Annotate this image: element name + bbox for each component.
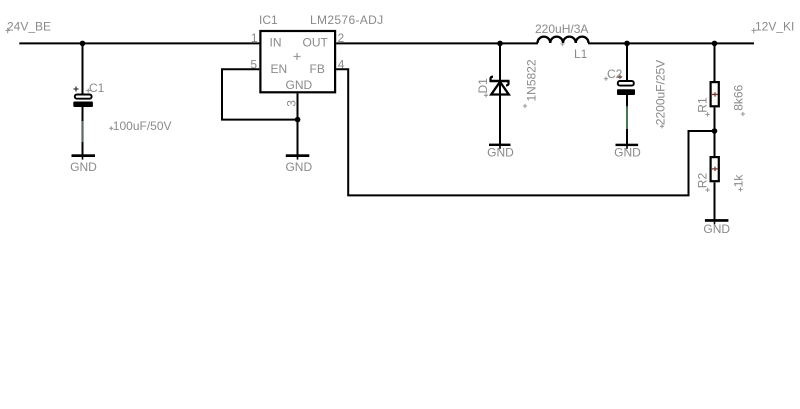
wire node to D1 <box>499 43 501 95</box>
label R2 (rotated) <box>696 173 710 192</box>
ground GND under D1 <box>487 144 514 160</box>
wire C1 to GND <box>82 107 84 155</box>
svg-text:GND: GND <box>703 222 730 236</box>
label LM2576-ADJ <box>310 13 384 27</box>
wire IC1 OUT to L1 <box>336 42 538 44</box>
label R1 (rotated) <box>696 97 710 116</box>
pin 4 number <box>338 57 345 71</box>
pin name EN <box>271 62 288 76</box>
junction C1 node <box>80 41 86 47</box>
label R1 value 8k66 (rotated) <box>731 84 745 116</box>
pin 5 number <box>250 57 257 71</box>
wire node to C1 <box>82 43 84 94</box>
svg-text:GND: GND <box>70 160 97 174</box>
svg-text:IC1: IC1 <box>259 13 278 27</box>
svg-text:12V_KI: 12V_KI <box>755 20 794 34</box>
svg-text:1k: 1k <box>731 174 745 188</box>
svg-text:3: 3 <box>285 100 299 107</box>
svg-text:8k66: 8k66 <box>731 84 745 110</box>
svg-text:100uF/50V: 100uF/50V <box>113 119 172 133</box>
resistor R2 <box>711 157 719 181</box>
pin name OUT <box>303 36 329 50</box>
wire 24V_BE to IC1 pin IN <box>19 42 259 44</box>
wire C2 to GND <box>626 95 628 144</box>
svg-text:GND: GND <box>286 78 313 92</box>
wire R1 to R2 <box>714 107 716 156</box>
label IC1 <box>259 13 278 27</box>
junction EN/GND node <box>295 117 301 123</box>
svg-text:GND: GND <box>487 145 514 159</box>
label C2 value 2200uF/25V (rotated) <box>653 60 667 129</box>
wire node to R1 <box>714 43 716 81</box>
ground GND under C2 <box>614 144 641 160</box>
svg-text:IN: IN <box>270 36 282 50</box>
label D1 (rotated) <box>476 78 490 98</box>
svg-text:C1: C1 <box>89 81 105 95</box>
svg-text:220uH/3A: 220uH/3A <box>535 22 588 36</box>
pin name IN <box>270 36 282 50</box>
svg-text:R1: R1 <box>696 97 710 113</box>
label D1 value 1N5822 (rotated) <box>523 59 538 108</box>
svg-text:24V_BE: 24V_BE <box>7 20 51 34</box>
diode D1 schottky <box>490 77 510 95</box>
wire node to C2 <box>626 43 628 80</box>
label C1 value 100uF/50V <box>109 119 171 133</box>
svg-text:R2: R2 <box>696 173 710 189</box>
net 12V_KI label <box>752 20 795 34</box>
svg-text:D1: D1 <box>476 78 490 94</box>
wire D1 to GND <box>499 95 501 144</box>
wire IC1 pin 3 to GND <box>297 93 299 154</box>
IC1 origin cross <box>294 53 301 60</box>
ground GND under IC1 <box>285 154 312 174</box>
svg-text:LM2576-ADJ: LM2576-ADJ <box>310 13 384 27</box>
inductor L1 <box>538 37 589 43</box>
label R2 value 1k (rotated) <box>731 174 745 192</box>
label L1 value 220uH/3A <box>535 22 588 46</box>
svg-text:OUT: OUT <box>303 36 329 50</box>
svg-text:1: 1 <box>251 31 258 45</box>
pin name FB <box>310 62 325 76</box>
svg-text:GND: GND <box>614 145 641 159</box>
junction R1/R2 feedback node <box>712 128 718 134</box>
pin 3 number (rotated) <box>285 100 299 107</box>
svg-text:EN: EN <box>271 62 288 76</box>
junction D1 node <box>497 41 503 47</box>
net 24V_BE label <box>6 20 52 34</box>
ground GND under R2 <box>703 219 730 236</box>
wire EN to GND net <box>222 69 296 119</box>
label L1 <box>574 47 588 61</box>
pin 1 number <box>251 31 258 45</box>
wire FB feedback to R1/R2 node <box>336 69 713 195</box>
junction C2 node <box>624 41 630 47</box>
svg-text:2: 2 <box>338 31 345 45</box>
label C1 <box>86 81 104 95</box>
resistor R1 <box>711 82 719 106</box>
capacitor C2 <box>617 81 635 95</box>
svg-text:1N5822: 1N5822 <box>524 59 538 101</box>
ground GND under C1 <box>70 154 97 174</box>
svg-text:2200uF/25V: 2200uF/25V <box>653 60 667 125</box>
wire R2 to GND <box>714 182 716 220</box>
svg-text:FB: FB <box>310 62 325 76</box>
label C2 <box>604 67 623 81</box>
junction R1 node <box>712 41 718 47</box>
pin 2 number <box>338 31 345 45</box>
wire L1 to 12V_KI <box>588 42 754 44</box>
svg-text:L1: L1 <box>574 47 588 61</box>
IC IC1 LM2576-ADJ body <box>260 31 335 92</box>
pin name GND <box>286 78 313 92</box>
svg-text:GND: GND <box>285 160 312 174</box>
capacitor C1 <box>73 87 93 108</box>
